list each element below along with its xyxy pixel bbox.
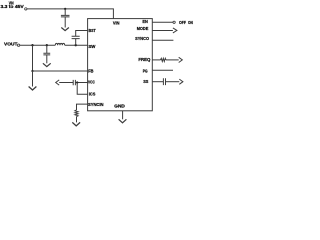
wire SW rail [65, 44, 88, 46]
svg-text:PG: PG [143, 68, 148, 73]
resistor RT [161, 58, 167, 61]
wire FB sense drop [32, 45, 34, 71]
wire FB ground lead [32, 71, 34, 87]
node junction VCC-ICS [76, 81, 78, 83]
svg-text:GND: GND [114, 104, 125, 109]
wire SYNCO [152, 39, 173, 41]
svg-text:ICS: ICS [89, 91, 96, 96]
terminal VIN [25, 8, 27, 10]
node SS connector arrow [179, 79, 183, 84]
wire RSYNC ground lead [76, 117, 78, 123]
wire PG [152, 69, 173, 71]
wire VCC to capacitor [75, 82, 87, 84]
wire ICS tie [77, 83, 87, 95]
capacitor COUT [43, 53, 50, 55]
node junction SW-CBST [75, 44, 77, 46]
wire FB to pin [33, 70, 88, 72]
wire VCC to connector [59, 82, 73, 84]
svg-text:MODE: MODE [137, 26, 149, 31]
node junction VOUT-COUT [46, 44, 48, 46]
wire SS to capacitor [152, 81, 163, 83]
svg-text:SYNCIN: SYNCIN [88, 102, 104, 107]
wire GND pin [122, 111, 124, 120]
node junction VOUT-FB [31, 44, 33, 46]
resistor RSYNC [75, 110, 78, 117]
ground RSYNC [72, 122, 80, 126]
svg-text:SYNCO: SYNCO [135, 36, 150, 41]
wire FREQ to resistor [152, 59, 160, 61]
node junction FB [31, 70, 33, 72]
svg-text:3.3 to 45V: 3.3 to 45V [1, 4, 24, 9]
capacitor CBST [72, 36, 80, 38]
wire MODE [152, 30, 173, 32]
capacitor CVCC [73, 80, 75, 85]
terminal VOUT [17, 44, 19, 46]
inductor L1 [55, 43, 64, 45]
capacitor CIN [61, 15, 70, 17]
wire SS to connector [166, 81, 180, 83]
wire VIN rail [27, 9, 113, 19]
svg-text:VCC: VCC [88, 79, 95, 84]
terminal EN switch [173, 21, 175, 23]
ground FB divider [29, 87, 37, 91]
svg-text:FB: FB [88, 69, 93, 74]
svg-text:BST: BST [89, 28, 97, 33]
wire EN [152, 21, 173, 23]
wire CIN lead top [64, 9, 66, 15]
node MODE connector arrow [173, 28, 177, 33]
wire CIN lead bottom [64, 17, 66, 28]
svg-text:EN: EN [142, 19, 147, 24]
svg-text:VOUT: VOUT [4, 42, 18, 47]
svg-text:SS: SS [143, 79, 148, 84]
op-amp U1 regulator body [88, 19, 153, 111]
wire COUT lead top [46, 45, 48, 53]
ground GND pin [119, 119, 127, 123]
wire VOUT rail [20, 44, 56, 46]
node FREQ connector arrow [179, 57, 183, 62]
wire COUT lead bottom [46, 55, 48, 63]
ground COUT [43, 63, 51, 66]
svg-text:SW: SW [88, 44, 95, 49]
svg-text:FREQ: FREQ [138, 57, 151, 62]
svg-text:OFF: OFF [179, 20, 186, 25]
svg-text:ON: ON [188, 20, 193, 25]
wire FREQ to connector [166, 59, 179, 61]
wire CBST lead to BST [76, 31, 88, 37]
capacitor CSS [163, 78, 165, 85]
node VCC connector arrow [56, 80, 60, 85]
node junction VIN-CIN [64, 8, 66, 10]
ground CIN [61, 28, 69, 31]
wire SYNCIN [77, 104, 88, 110]
wire CBST lead bottom [75, 39, 77, 46]
svg-text:VIN: VIN [113, 21, 120, 26]
